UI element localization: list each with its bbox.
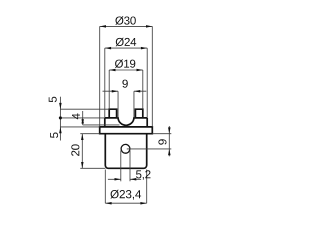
label D23,4 <box>110 190 141 200</box>
dim D30 line <box>100 25 153 27</box>
ext line 5,2 left <box>120 151 122 182</box>
dim D24 line <box>105 47 147 49</box>
ext line prong top y109.2 <box>60 108 109 110</box>
ext line slot9 left <box>117 91 119 118</box>
arrow 5,2 left <box>115 178 121 181</box>
ext line block top y117.9 <box>60 117 104 119</box>
part outline: block sides <box>105 118 147 127</box>
hole 5.2 <box>121 144 130 153</box>
arrow 20 down <box>81 162 84 168</box>
dim 5 lower line <box>59 118 61 141</box>
ext line D30 right <box>151 26 153 127</box>
part outline: prong left <box>109 109 116 118</box>
label D19 <box>115 59 135 68</box>
arrow slot9 right <box>134 90 140 93</box>
dim slot9 line tails <box>103 90 147 92</box>
part outline: body with rounded bottom <box>105 134 146 169</box>
part outline: prong right <box>135 109 142 118</box>
arrow D24 left <box>105 47 111 50</box>
ext line D23,4 left <box>104 170 106 204</box>
ext line D23,4 right <box>146 170 148 204</box>
ext line D24 left <box>104 48 106 118</box>
arrow D23,4 right <box>140 202 146 205</box>
label 5,2 <box>136 170 151 180</box>
arrow D24 right <box>141 47 147 50</box>
arrow D23,4 left <box>105 202 111 205</box>
ext line D19 left <box>108 70 110 109</box>
arrow 20 up <box>81 134 84 140</box>
dim 4 line <box>82 111 84 125</box>
label 20 <box>71 144 79 156</box>
dim 20 line <box>81 134 83 169</box>
arrow D30 right <box>146 25 152 28</box>
arrow 4 down <box>81 119 84 125</box>
dim 9 right line <box>168 126 170 156</box>
ext line D24 right <box>146 48 148 118</box>
arrow 5u down <box>59 103 62 109</box>
part outline: flange <box>100 127 153 134</box>
arrow D30 left <box>100 25 106 28</box>
ext line D19 right <box>142 70 144 109</box>
ext line slot9 right <box>133 91 135 118</box>
dim D19 line <box>109 69 143 71</box>
label 9 right <box>158 139 166 144</box>
ext line flange bottom right y133.7 <box>152 133 171 135</box>
arrow D19 right <box>137 69 143 72</box>
label D30 <box>115 16 136 25</box>
ext line hole center y148.9 <box>127 148 172 150</box>
arrow D19 left <box>109 69 115 72</box>
label 5 lower <box>50 133 58 138</box>
arrow 5l up <box>59 127 62 133</box>
ext line 5,2 right <box>129 151 131 182</box>
label 5 upper <box>49 97 57 102</box>
arrow slot9 left <box>112 90 118 93</box>
dim 5,2 line tails <box>108 178 141 180</box>
arrow 4 up <box>81 118 84 124</box>
ext line body bottom left y168.3 <box>80 167 105 169</box>
label 9 top <box>122 80 127 88</box>
arrow 9r bottom up <box>168 149 171 155</box>
label D24 <box>116 38 137 47</box>
ext line U bottom y124.9 <box>83 124 120 126</box>
part outline: block top with U slot <box>105 118 147 125</box>
dim D23,4 line <box>105 202 146 204</box>
arrow 5,2 right <box>130 178 136 181</box>
arrow 9r top down <box>168 127 171 133</box>
dot joint 5/5 <box>59 116 62 119</box>
ext line D30 left <box>99 26 101 127</box>
ext line flange bottom left y133.7 <box>80 133 99 135</box>
label 4 <box>72 113 80 119</box>
ext line flange top y126.9 <box>60 126 99 128</box>
dim 5 upper line <box>59 97 61 118</box>
